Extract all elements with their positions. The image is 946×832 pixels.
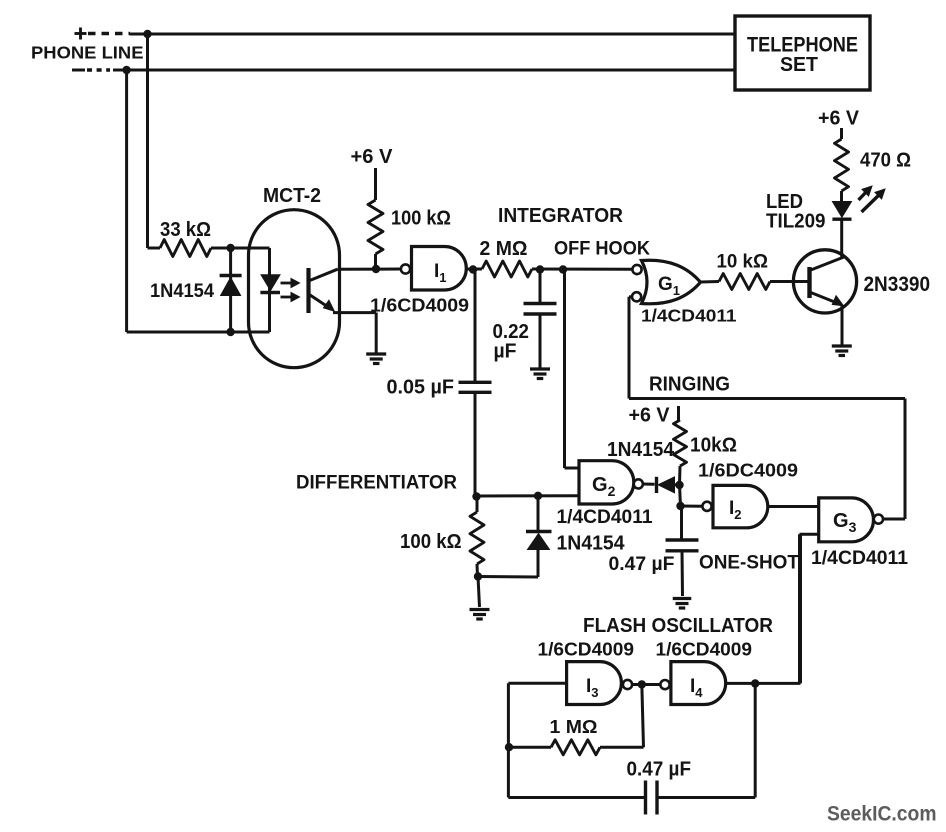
svg-text:SeekIC.com: SeekIC.com (827, 802, 937, 826)
svg-text:1N4154: 1N4154 (150, 281, 214, 302)
svg-text:2N3390: 2N3390 (864, 273, 931, 296)
svg-text:0.05 µF: 0.05 µF (387, 377, 455, 399)
svg-text:1 MΩ: 1 MΩ (550, 717, 598, 737)
svg-text:DIFFERENTIATOR: DIFFERENTIATOR (296, 473, 457, 494)
svg-text:1/6DC4009: 1/6DC4009 (698, 460, 798, 481)
svg-text:RINGING: RINGING (649, 374, 730, 396)
svg-text:2 MΩ: 2 MΩ (480, 238, 528, 260)
svg-text:OFF HOOK: OFF HOOK (554, 238, 650, 260)
svg-text:ONE-SHOT: ONE-SHOT (699, 552, 799, 574)
svg-text:PHONE LINE: PHONE LINE (31, 43, 144, 63)
svg-text:100 kΩ: 100 kΩ (391, 208, 451, 230)
svg-text:1/4CD4011: 1/4CD4011 (557, 507, 653, 528)
svg-text:0.47 µF: 0.47 µF (627, 759, 692, 781)
svg-text:10kΩ: 10kΩ (690, 435, 737, 457)
svg-text:+6 V: +6 V (629, 405, 671, 427)
svg-text:FLASH OSCILLATOR: FLASH OSCILLATOR (583, 614, 773, 637)
svg-text:100 kΩ: 100 kΩ (400, 530, 462, 553)
svg-text:INTEGRATOR: INTEGRATOR (498, 204, 623, 227)
svg-text:1N4154: 1N4154 (557, 533, 626, 555)
svg-text:10 kΩ: 10 kΩ (717, 251, 769, 273)
svg-text:1/4CD4011: 1/4CD4011 (811, 548, 908, 569)
svg-text:1/6CD4009: 1/6CD4009 (370, 295, 469, 316)
svg-text:1/4CD4011: 1/4CD4011 (641, 306, 737, 326)
svg-text:1/6CD4009: 1/6CD4009 (656, 639, 753, 660)
svg-text:470 Ω: 470 Ω (860, 150, 911, 172)
svg-text:1/6CD4009: 1/6CD4009 (538, 639, 635, 660)
svg-text:33 kΩ: 33 kΩ (160, 219, 211, 241)
svg-text:µF: µF (494, 341, 517, 363)
svg-text:+6 V: +6 V (818, 108, 860, 130)
svg-text:MCT-2: MCT-2 (263, 185, 321, 207)
svg-text:TIL209: TIL209 (766, 210, 826, 233)
svg-text:0.47 µF: 0.47 µF (609, 553, 675, 575)
svg-text:SET: SET (780, 53, 818, 76)
svg-text:1N4154: 1N4154 (607, 439, 675, 461)
svg-text:+6 V: +6 V (351, 146, 394, 168)
